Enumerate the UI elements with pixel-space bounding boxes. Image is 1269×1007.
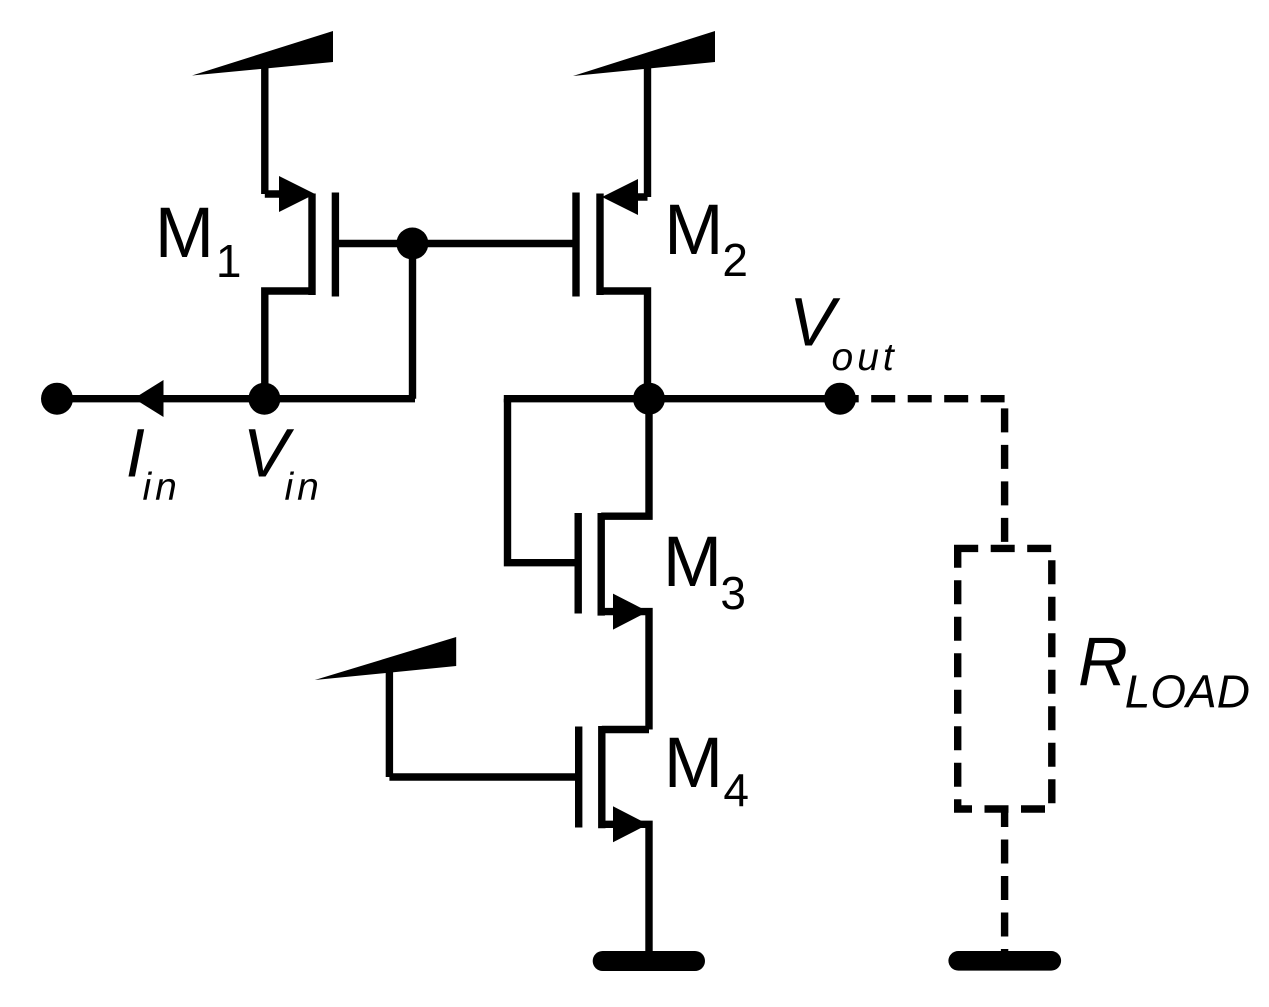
svg-text:2: 2 [722, 234, 748, 286]
svg-text:3: 3 [720, 567, 746, 619]
svg-text:R: R [1078, 623, 1128, 700]
svg-text:LOAD: LOAD [1125, 665, 1250, 717]
svg-text:1: 1 [216, 235, 242, 287]
svg-text:M: M [664, 191, 723, 270]
svg-text:in: in [143, 466, 181, 509]
svg-text:out: out [832, 336, 898, 379]
svg-text:in: in [285, 466, 323, 509]
svg-text:M: M [663, 523, 722, 602]
svg-text:M: M [155, 194, 214, 273]
svg-text:M: M [664, 724, 723, 803]
svg-text:4: 4 [723, 764, 749, 816]
